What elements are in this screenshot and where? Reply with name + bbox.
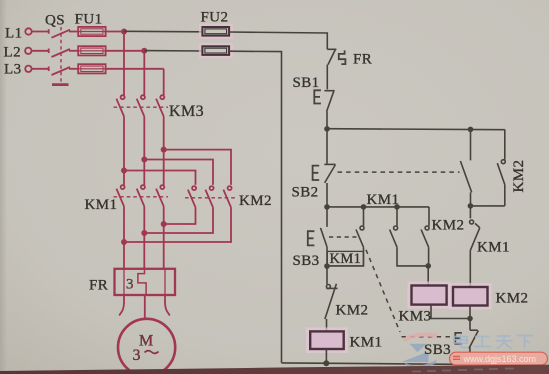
switch QS pole 1 blade xyxy=(52,30,71,38)
wire FU1 row2 to node xyxy=(106,50,145,52)
watermark text gong xyxy=(474,337,492,347)
watermark logo pink arc xyxy=(404,335,437,341)
SB3 linkage dashed xyxy=(329,236,357,238)
button SB1 contact xyxy=(324,90,334,92)
node L1 terminal xyxy=(25,28,31,34)
fuse FU1 pole 3 xyxy=(78,64,105,73)
contactor KM1 pole 2 xyxy=(141,185,145,189)
wire QS2 to FU1 xyxy=(69,50,78,52)
svg-text:SB2: SB2 xyxy=(292,185,319,201)
wire KM2 pole1 out crossback xyxy=(164,207,196,224)
svg-text:KM1: KM1 xyxy=(350,335,383,351)
switch QS pole 1 hinge xyxy=(48,29,50,34)
contactor KM2 pole 2 xyxy=(210,186,214,190)
contactor KM3 pole 2 xyxy=(141,95,145,99)
wire below KM3 pole2 xyxy=(143,116,145,159)
node SB3 bottom xyxy=(324,263,330,269)
wire SB1 to node A xyxy=(326,112,328,129)
wire to FR phase2 xyxy=(143,233,145,269)
FR phase1 through xyxy=(123,269,125,295)
wire to FR phase1 xyxy=(123,242,125,269)
wire to FR phase3 xyxy=(163,224,165,269)
KM1 selfhold label box xyxy=(327,251,363,266)
wire crossover C to KM2 col3 xyxy=(164,150,231,185)
node out B xyxy=(141,230,147,236)
node B xyxy=(324,204,330,210)
contactor KM1 pole 3 xyxy=(160,185,164,189)
switch QS pole 2 blade xyxy=(52,49,71,57)
wire node A row xyxy=(327,129,505,130)
wire FU2-1 to control column xyxy=(229,32,327,49)
fuse FU2 pole 1 highlight xyxy=(199,24,233,39)
node coils join xyxy=(467,316,473,322)
fuse FU2 pole 2 xyxy=(202,46,229,55)
svg-text:FU2: FU2 xyxy=(201,10,229,26)
contact KM1-NC interlock xyxy=(469,206,471,219)
wire FR to motor right xyxy=(165,295,170,316)
svg-text:SB3: SB3 xyxy=(424,342,451,358)
SB2 linkage dashed xyxy=(338,171,460,173)
contactor KM2 pole 3 xyxy=(228,186,232,190)
contactor KM3 pole 1 xyxy=(121,95,125,99)
coil KM3 xyxy=(412,286,447,305)
contactor KM2 pole 1 xyxy=(192,186,196,190)
wire L3 to QS xyxy=(32,68,49,70)
wire pair bottom row xyxy=(470,205,504,207)
wire QS1 to FU1 xyxy=(69,31,78,33)
node row2 junction xyxy=(141,48,147,54)
KM2 linkage dashed xyxy=(185,197,236,199)
svg-text:KM2: KM2 xyxy=(432,218,465,234)
wire SB3 to join xyxy=(326,247,328,284)
node B junction at KM pair xyxy=(394,204,400,210)
svg-text:3: 3 xyxy=(126,277,134,293)
svg-text:SB3: SB3 xyxy=(293,253,320,269)
svg-text:KM3: KM3 xyxy=(169,103,204,120)
wire row2 to FU2 xyxy=(144,50,202,52)
motor tilde xyxy=(145,351,159,354)
contactor KM1 pole 1 xyxy=(121,185,125,189)
wire FU2-2 to return column xyxy=(229,51,281,363)
svg-text:www.dgjs163.com: www.dgjs163.com xyxy=(463,354,537,364)
svg-text:SB1: SB1 xyxy=(293,75,320,91)
KM1 linkage dashed xyxy=(114,196,169,198)
node row1 junction xyxy=(121,29,127,35)
wire SB2 to node B xyxy=(326,183,328,207)
node crossover A xyxy=(121,168,127,174)
wire L1 to QS xyxy=(32,31,49,33)
node crossover C xyxy=(161,147,167,153)
wire phase B drop to KM3 xyxy=(143,51,145,95)
contact KM1 selfhold (NO) xyxy=(363,207,365,226)
wire KM1 col1 feed xyxy=(123,171,125,185)
wire KM1 pole2 out xyxy=(143,206,145,233)
svg-text:3: 3 xyxy=(133,347,141,364)
SB3 to SB3NC diagonal linkage dashed xyxy=(366,250,400,332)
node out A xyxy=(121,239,127,245)
button SB2-NO blade xyxy=(460,161,471,192)
FR heater element xyxy=(138,269,146,295)
wire KM2 pole2 out crossback xyxy=(144,207,213,233)
wire KM1 col2 feed xyxy=(143,160,145,185)
node pair bottom xyxy=(468,203,474,209)
relay FR box xyxy=(115,269,176,295)
button SB2 contact xyxy=(324,163,335,165)
button SB3 contact blade xyxy=(321,228,328,247)
coil KM3 highlight xyxy=(407,281,450,308)
svg-text:L2: L2 xyxy=(4,45,21,61)
wire bottom rail xyxy=(282,363,471,365)
node rail KM1 xyxy=(323,360,329,366)
svg-text:KM2: KM2 xyxy=(511,160,527,193)
svg-text:FR: FR xyxy=(353,52,372,68)
wire crossover A to KM2 col1 xyxy=(124,171,196,185)
fuse FU1 pole 2 xyxy=(78,46,105,55)
svg-text:KM3: KM3 xyxy=(399,309,432,325)
FR phase3 through xyxy=(164,269,166,295)
svg-text:KM1: KM1 xyxy=(330,251,362,267)
node crossover B xyxy=(141,157,147,163)
wire phase C drop to KM3 xyxy=(163,69,165,95)
watermark text xia xyxy=(517,336,534,349)
wire FU1 row3 horizontal xyxy=(106,68,164,70)
switch QS pole 2 hinge xyxy=(48,49,50,54)
wire KM2 coil bottom xyxy=(469,306,471,331)
button SB3 E actuator xyxy=(308,231,315,245)
switch QS pole 3 blade xyxy=(52,67,71,75)
watermark text dian xyxy=(454,334,533,349)
wire L2 to QS xyxy=(32,50,49,52)
fuse FU1 pole 1 xyxy=(78,27,105,36)
contactor KM3 pole 3 xyxy=(160,95,164,99)
wire below KM3 pole3 xyxy=(163,116,165,149)
coil KM1 xyxy=(310,331,344,349)
branch SB2-NO from node A row xyxy=(470,129,472,160)
wire phase A drop to KM3 xyxy=(123,32,125,96)
wire SB3NC to rail xyxy=(469,347,471,364)
svg-text:KM2: KM2 xyxy=(496,291,529,307)
contact KM2-NC above KM1 coil xyxy=(326,285,330,289)
wire QS3 to FU1 xyxy=(69,68,78,70)
svg-text:KM2: KM2 xyxy=(239,193,272,209)
node B junction at selfhold xyxy=(361,204,367,210)
button SB2 (NC) E actuator xyxy=(313,166,320,180)
svg-text:KM1: KM1 xyxy=(477,240,510,256)
svg-text:QS: QS xyxy=(45,13,65,29)
relay contact FR (NC) xyxy=(327,48,336,50)
wire below KM3 pole1 xyxy=(123,116,125,170)
motor M circle xyxy=(118,319,175,374)
node out C xyxy=(161,221,167,227)
svg-text:KM1: KM1 xyxy=(85,197,118,213)
node A right junction xyxy=(468,127,474,133)
KM3 linkage dashed xyxy=(114,106,169,108)
contact KM2 (NO, to KM3 coil) xyxy=(428,207,430,226)
wire FR to motor mid xyxy=(144,295,146,319)
QS handle bar xyxy=(52,83,69,86)
QS linkage dashed xyxy=(60,27,62,82)
svg-text:FR: FR xyxy=(89,278,108,294)
button SB1 (NC stop) E actuator xyxy=(314,90,321,103)
svg-text:L3: L3 xyxy=(4,62,21,78)
watermark text tian xyxy=(496,336,513,349)
watermark logo blue hourglass xyxy=(402,344,438,368)
fuse FU2 pole 2 highlight xyxy=(199,43,233,58)
wire FU1 row1 to node xyxy=(106,31,124,33)
svg-text:KM2: KM2 xyxy=(336,303,369,319)
wire FR to SB1 xyxy=(326,65,328,90)
node above KM3 coil xyxy=(425,263,431,269)
FR paddle symbol xyxy=(339,50,346,64)
button SB3-NC E actuator xyxy=(455,333,462,344)
button SB3-NC contact xyxy=(470,329,478,331)
svg-text:KM1: KM1 xyxy=(367,192,400,208)
wire node B row xyxy=(327,206,429,208)
contact KM2 selfhold (NO right) xyxy=(504,129,506,159)
switch QS pole 3 hinge xyxy=(48,67,50,72)
watermark banner xyxy=(450,352,548,365)
wire KM1 col3 feed xyxy=(163,150,165,185)
wire into KM3 coil xyxy=(427,266,429,286)
coil KM2 highlight xyxy=(449,283,492,310)
svg-text:FU1: FU1 xyxy=(75,12,103,28)
wire KM1 coil to rail xyxy=(325,349,327,363)
svg-text:M: M xyxy=(139,333,154,350)
fuse FU2 pole 1 xyxy=(202,27,229,36)
button SB3 (NO) wire xyxy=(326,207,328,227)
wire row1 to FU2 xyxy=(124,30,202,33)
wire node A to SB2 xyxy=(326,129,328,164)
wire KM3 coil bottom xyxy=(431,305,470,319)
node L3 terminal xyxy=(25,66,31,72)
wire KM1 pole3 out xyxy=(163,206,165,224)
wire crossover B to KM2 col2 xyxy=(144,160,213,185)
node L2 terminal xyxy=(25,48,31,54)
bottom dark band xyxy=(0,0,1,1)
node A xyxy=(324,126,330,132)
wire KM1 pole1 out xyxy=(123,206,125,242)
coil KM1 highlight xyxy=(306,327,348,353)
wire KM2 pole3 out crossback xyxy=(124,207,231,242)
svg-text:L1: L1 xyxy=(5,25,22,41)
coil KM2 xyxy=(453,287,488,306)
contact KM1 (NO, to KM3 coil) xyxy=(396,207,398,226)
wire FR to motor left xyxy=(119,295,124,316)
